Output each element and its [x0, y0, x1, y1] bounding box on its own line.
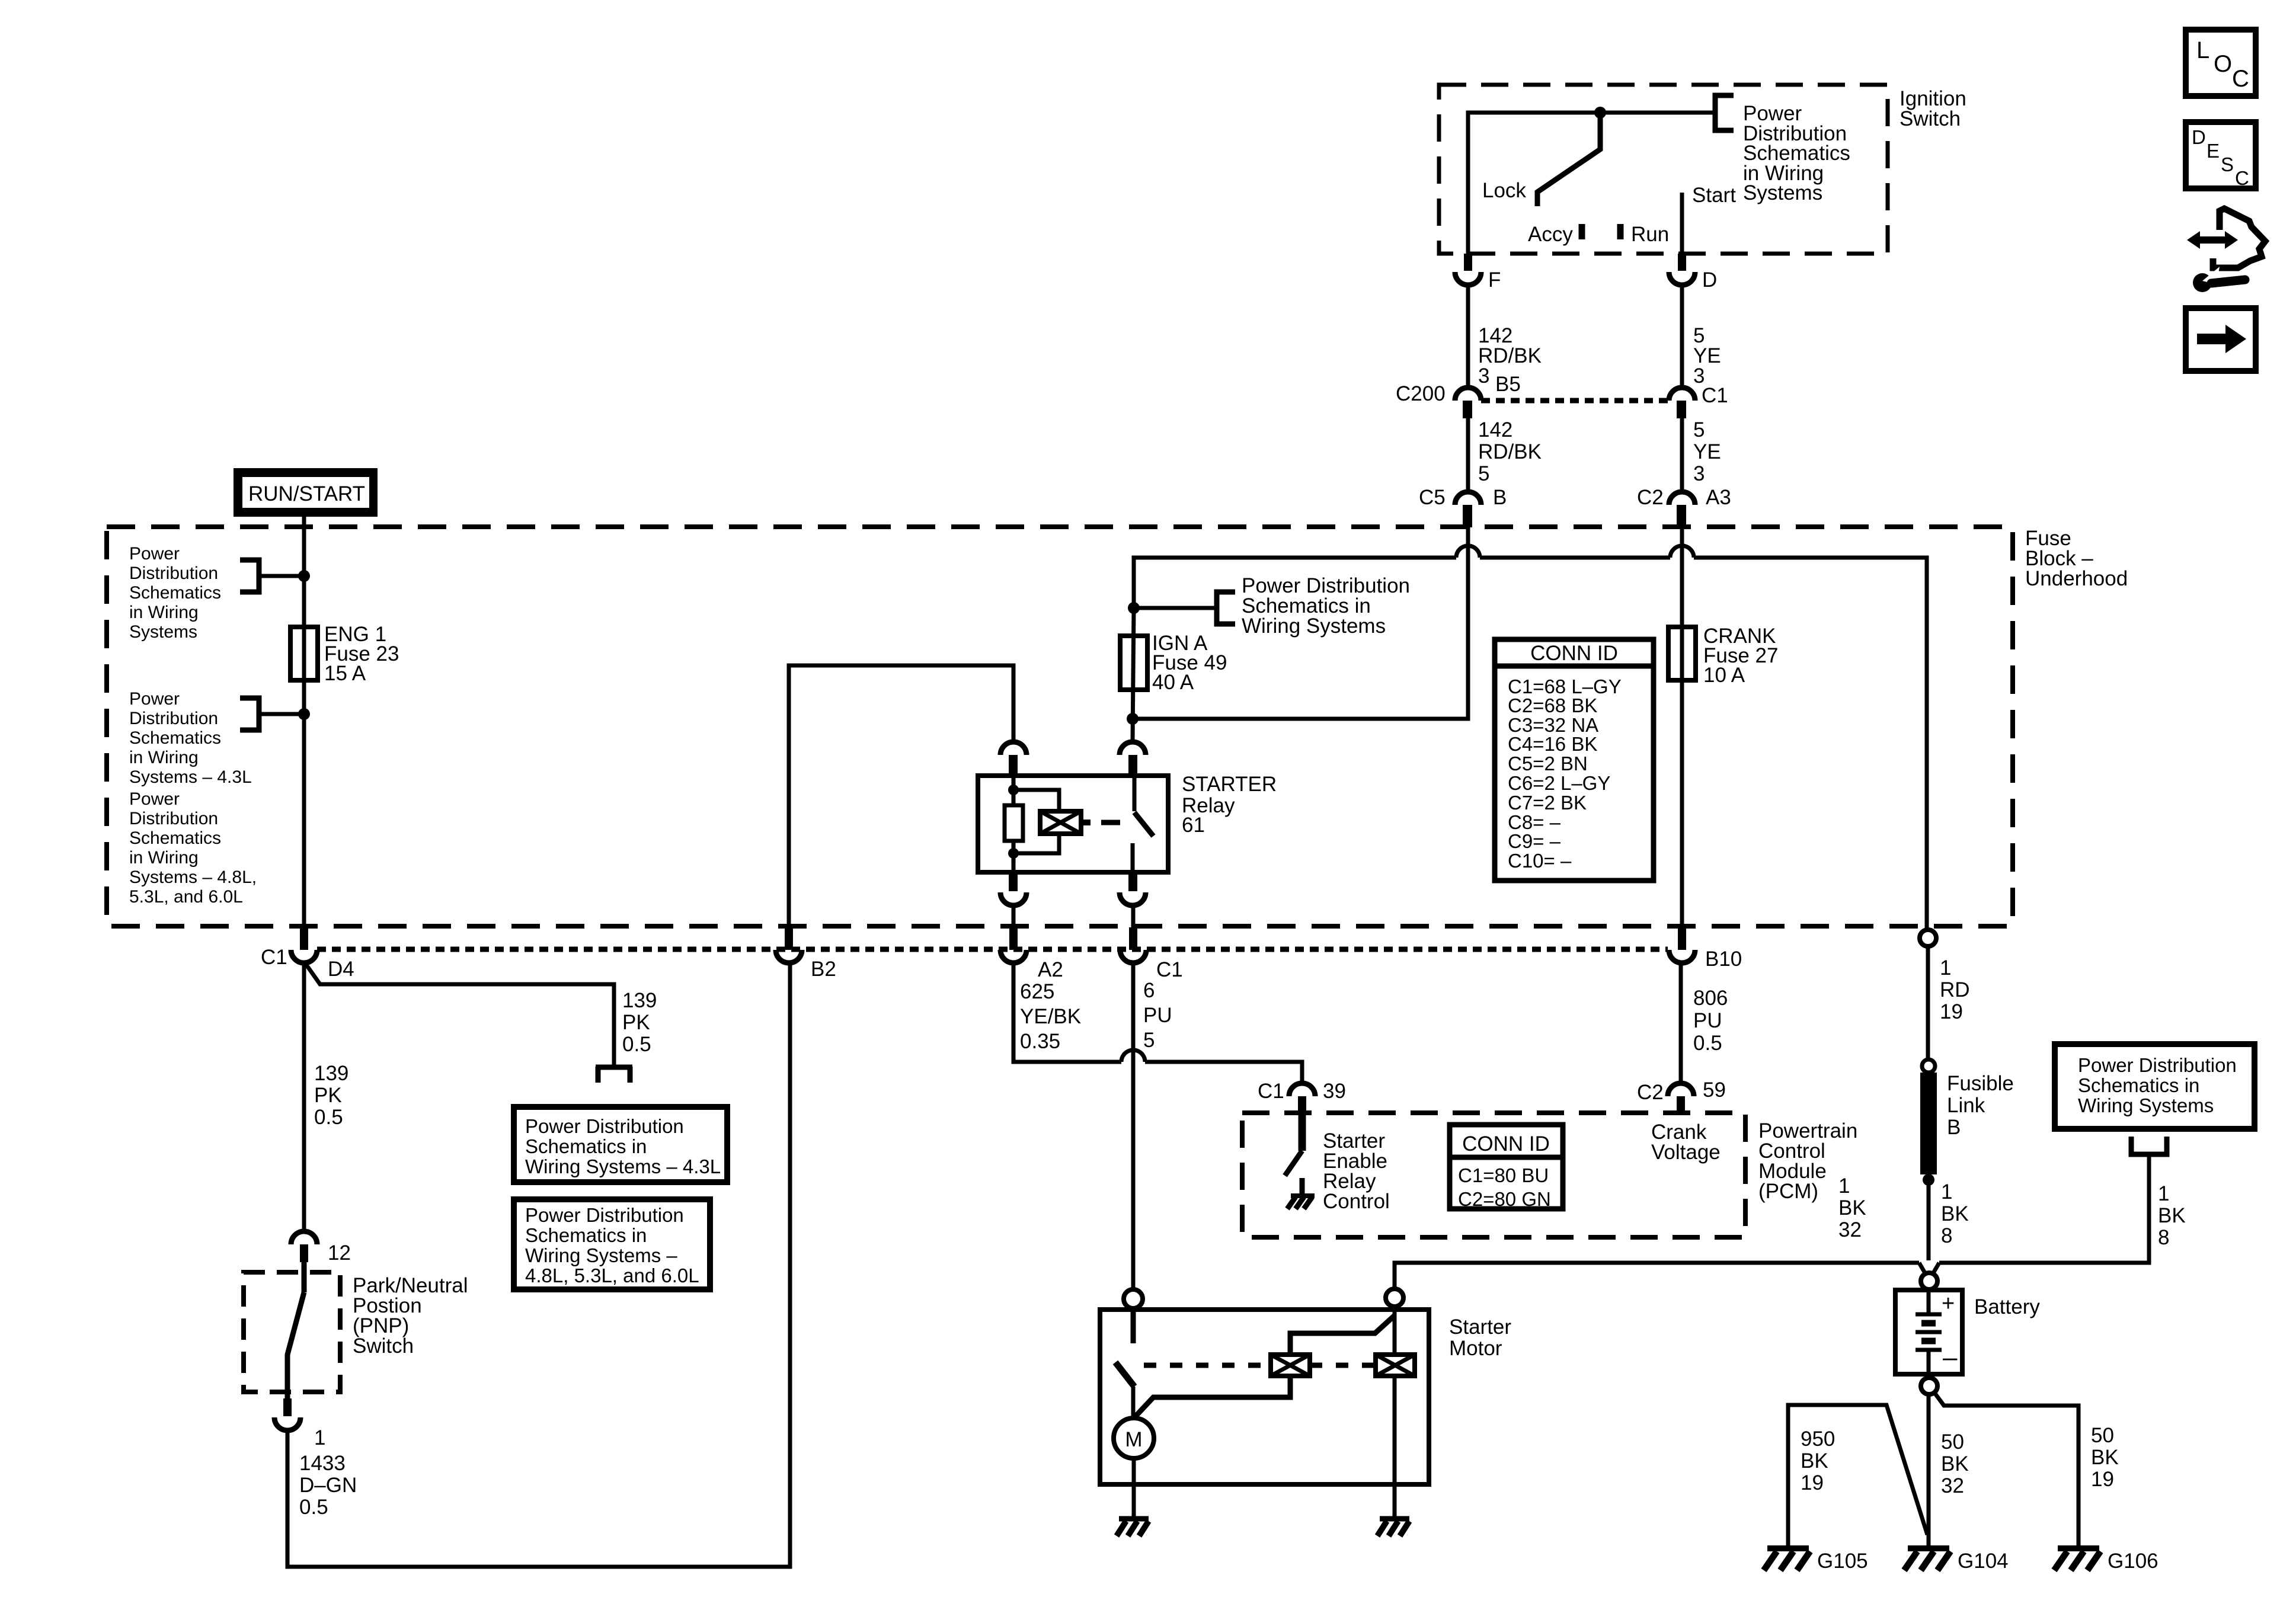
node ENG1 lower junction	[298, 708, 310, 720]
label 139 PK 0.5 (PNP)	[314, 1062, 348, 1129]
svg-text:C2: C2	[1637, 1081, 1664, 1104]
starter enable relay control switch	[1299, 1113, 1306, 1151]
label CRANK Fuse 27 10 A	[1703, 625, 1778, 687]
svg-text:BK: BK	[2158, 1204, 2186, 1227]
svg-text:C9= –: C9= –	[1508, 830, 1561, 852]
svg-text:STARTER: STARTER	[1182, 773, 1277, 796]
wire B2 riser to relay coil	[789, 665, 1013, 927]
svg-text:15 A: 15 A	[324, 662, 366, 685]
ground (starter motor left)	[1117, 1519, 1149, 1536]
tag RUN/START	[234, 468, 378, 517]
svg-text:D: D	[2192, 126, 2206, 148]
connector B2	[776, 927, 802, 963]
label 50 BK 19	[2091, 1424, 2119, 1491]
svg-text:in Wiring: in Wiring	[129, 603, 199, 622]
wire relay coil branch	[1012, 776, 1016, 872]
fusible link B	[1920, 1060, 1937, 1186]
svg-text:Systems: Systems	[1743, 181, 1822, 204]
starter switch blade	[1115, 1362, 1134, 1387]
svg-text:Schematics in: Schematics in	[525, 1224, 647, 1246]
svg-text:8: 8	[2158, 1226, 2169, 1249]
svg-text:Starter: Starter	[1449, 1315, 1511, 1339]
label power distribution schematics (ignition)	[1743, 102, 1850, 204]
svg-text:in Wiring: in Wiring	[129, 748, 199, 767]
label 142 RD/BK 5	[1478, 418, 1542, 485]
svg-text:Distribution: Distribution	[129, 564, 218, 583]
svg-text:1: 1	[314, 1426, 325, 1449]
off-page bracket (lower left)	[240, 698, 259, 730]
svg-text:Wiring Systems: Wiring Systems	[1242, 614, 1386, 638]
svg-text:50: 50	[1941, 1430, 1964, 1454]
label 1 BK 32	[1838, 1174, 1866, 1241]
label 5 YE 3 (lower)	[1693, 418, 1721, 485]
svg-text:C1: C1	[261, 946, 287, 969]
terminal starter solenoid S	[1124, 1289, 1143, 1308]
table CONN ID (fuse block)	[1495, 639, 1654, 881]
svg-text:C: C	[2232, 66, 2249, 92]
terminal circle RD exit	[1920, 930, 1936, 946]
svg-text:O: O	[2214, 51, 2232, 77]
icon arrow box	[2186, 308, 2256, 371]
svg-text:C6=2 L–GY: C6=2 L–GY	[1508, 772, 1610, 794]
svg-text:Accy: Accy	[1528, 223, 1573, 246]
wire 1433 D-GN return to B2	[287, 965, 790, 1567]
svg-text:C5=2 BN: C5=2 BN	[1508, 753, 1588, 774]
svg-text:C1: C1	[1156, 958, 1183, 981]
wire bus taps to battery positive	[1919, 1263, 1939, 1274]
label Park/Neutral Postion (PNP) Switch	[353, 1274, 468, 1358]
wire IGN A feed bus	[1134, 558, 1456, 608]
motor M	[1114, 1418, 1154, 1458]
off-page bracket (upper left)	[240, 560, 259, 592]
svg-text:Battery: Battery	[1974, 1295, 2040, 1318]
svg-text:39: 39	[1323, 1080, 1346, 1103]
svg-text:Underhood: Underhood	[2025, 567, 2128, 590]
svg-text:1: 1	[1940, 956, 1951, 980]
svg-text:8: 8	[1941, 1224, 1952, 1247]
label 5 YE 3	[1693, 324, 1721, 388]
svg-text:C10= –: C10= –	[1508, 850, 1572, 872]
wire ignition feed (F leg and top run)	[1468, 113, 1713, 254]
svg-text:CONN ID: CONN ID	[1530, 642, 1618, 665]
svg-text:C1: C1	[1258, 1080, 1284, 1103]
wire bracket to ENG1 lower	[259, 712, 304, 716]
connector C1 pin 39	[1289, 1083, 1315, 1114]
wire D4 branch to reference	[306, 964, 614, 1067]
icon vehicle-wrench symbol	[2187, 209, 2265, 292]
svg-text:Power: Power	[129, 689, 180, 709]
svg-text:32: 32	[1941, 1474, 1964, 1497]
svg-text:RD: RD	[1940, 978, 1970, 1001]
wire relay contact output to C1	[1131, 905, 1136, 927]
label power distribution schematics (left 1)	[129, 544, 221, 642]
svg-text:1: 1	[1941, 1180, 1952, 1204]
resistor (relay coil suppression)	[1005, 805, 1023, 841]
label Starter Enable Relay Control	[1323, 1129, 1390, 1213]
connector C2 pin 59	[1668, 1083, 1694, 1114]
wire bus continues	[1480, 556, 1670, 560]
svg-text:5.3L, and 6.0L: 5.3L, and 6.0L	[129, 887, 243, 907]
svg-text:4.8L, 5.3L, and 6.0L: 4.8L, 5.3L, and 6.0L	[525, 1265, 699, 1286]
icon LOC box	[2186, 30, 2256, 96]
wire 1 BK 8 (right)	[1939, 1154, 2149, 1263]
label 1433 D-GN 0.5	[299, 1452, 357, 1519]
svg-text:61: 61	[1182, 814, 1205, 837]
svg-text:BK: BK	[2091, 1446, 2119, 1469]
wire ignition start (D leg)	[1680, 193, 1684, 254]
wire 142 RD/BK 5	[1466, 418, 1470, 492]
svg-text:D: D	[1702, 268, 1717, 292]
label 1 BK 8 (fusible link)	[1941, 1180, 1969, 1247]
svg-text:Switch: Switch	[353, 1334, 414, 1358]
svg-text:5: 5	[1693, 418, 1705, 441]
svg-text:5: 5	[1478, 462, 1489, 485]
icon DESC box	[2186, 122, 2256, 189]
wire 5 YE 3 (lower)	[1680, 418, 1684, 492]
svg-text:BK: BK	[1838, 1196, 1866, 1219]
label Ignition Switch	[1900, 87, 1966, 130]
svg-text:40 A: 40 A	[1152, 671, 1194, 694]
wire blade to motor	[1131, 1387, 1136, 1419]
wire B (C5) drop inside fuse block	[1133, 527, 1468, 719]
hop over wire 6 PU	[1121, 1050, 1145, 1062]
svg-text:C2=80 GN: C2=80 GN	[1458, 1188, 1551, 1210]
svg-text:0.5: 0.5	[299, 1496, 328, 1519]
svg-text:Control: Control	[1323, 1190, 1390, 1213]
svg-text:806: 806	[1693, 987, 1728, 1010]
contact tick Accy	[1579, 224, 1585, 239]
ground (starter enable)	[1287, 1196, 1315, 1209]
label 1 RD 19	[1940, 956, 1970, 1023]
svg-text:3: 3	[1693, 462, 1705, 485]
svg-text:19: 19	[1940, 1000, 1963, 1023]
relay switch contact and blade	[1133, 776, 1153, 872]
connector C2 pin A3	[1669, 492, 1695, 527]
wire 950 BK 19 from G105	[1788, 1405, 1927, 1546]
svg-text:Distribution: Distribution	[129, 809, 218, 828]
svg-text:B5: B5	[1495, 373, 1521, 396]
connector B10	[1669, 927, 1695, 963]
wire 625 YE/BK continues	[1145, 1062, 1302, 1083]
svg-text:0.5: 0.5	[314, 1106, 343, 1129]
svg-text:in Wiring: in Wiring	[129, 848, 199, 868]
svg-text:PK: PK	[622, 1011, 650, 1034]
wire ENG1 feed from RUN/START	[302, 517, 306, 927]
svg-text:RD/BK: RD/BK	[1478, 440, 1542, 463]
ground G105	[1764, 1548, 1810, 1570]
svg-text:12: 12	[328, 1241, 351, 1265]
wire 6 PU 5 to starter motor	[1131, 964, 1136, 1289]
label ENG 1 Fuse 23 15 A	[324, 623, 399, 685]
label Crank Voltage	[1651, 1121, 1721, 1164]
svg-text:A3: A3	[1706, 486, 1731, 509]
svg-text:B2: B2	[811, 958, 836, 981]
svg-text:C2=68 BK: C2=68 BK	[1508, 694, 1597, 716]
harness dotted line C200	[1481, 398, 1669, 404]
svg-text:B: B	[1493, 486, 1507, 509]
wire relay winding loop	[1013, 790, 1059, 853]
ground G104	[1904, 1548, 1950, 1570]
svg-text:G105: G105	[1817, 1550, 1868, 1573]
node ignition junction	[1594, 107, 1606, 119]
svg-text:M: M	[1125, 1428, 1142, 1451]
svg-text:BK: BK	[1941, 1452, 1969, 1475]
svg-text:Systems: Systems	[129, 622, 197, 642]
svg-text:Power Distribution: Power Distribution	[2078, 1054, 2237, 1076]
connector relay pin 30 (contact top)	[1120, 742, 1146, 774]
svg-text:32: 32	[1838, 1218, 1862, 1241]
connector F	[1455, 254, 1481, 285]
terminal starter battery B	[1386, 1289, 1403, 1307]
svg-text:F: F	[1488, 268, 1501, 292]
connector C1 (relay output)	[1120, 927, 1146, 963]
wire A3 drop to CRANK fuse	[1680, 527, 1684, 927]
svg-text:(PCM): (PCM)	[1758, 1180, 1818, 1203]
wire IGN A fuse output	[1133, 608, 1134, 741]
svg-text:Power Distribution: Power Distribution	[525, 1115, 684, 1137]
svg-text:C1: C1	[1702, 384, 1728, 407]
svg-text:5: 5	[1143, 1029, 1155, 1052]
svg-text:C: C	[2235, 167, 2249, 189]
svg-text:G106: G106	[2108, 1550, 2159, 1573]
svg-text:Wiring Systems –: Wiring Systems –	[525, 1244, 677, 1266]
svg-text:19: 19	[2091, 1468, 2114, 1491]
PNP switch dashed box	[244, 1272, 340, 1392]
pull-in winding (box X)	[1271, 1355, 1310, 1376]
connector relay pin 87 (contact bottom)	[1120, 872, 1146, 905]
connector C1 pin D4	[291, 927, 317, 963]
off-page bracket (battery reference)	[2131, 1137, 2167, 1154]
svg-text:YE/BK: YE/BK	[1020, 1005, 1081, 1028]
connector 1 (PNP output)	[274, 1398, 300, 1430]
svg-text:950: 950	[1801, 1427, 1835, 1451]
svg-text:A2: A2	[1038, 958, 1063, 981]
svg-text:59: 59	[1703, 1078, 1726, 1102]
wire 5 YE 3	[1680, 286, 1684, 388]
PCM dashed box	[1242, 1113, 1745, 1237]
wire ground bus (starter motor to battery)	[1395, 1263, 1919, 1266]
svg-text:Schematics: Schematics	[129, 583, 221, 603]
label power distribution schematics (left 2)	[129, 689, 252, 787]
wire 1 RD 19	[1926, 946, 1930, 1061]
svg-text:Power: Power	[129, 544, 180, 564]
table CONN ID (PCM)	[1450, 1125, 1563, 1210]
svg-text:D–GN: D–GN	[299, 1474, 357, 1497]
label STARTER Relay 61	[1182, 773, 1277, 837]
relay STARTER Relay 61 box	[978, 776, 1168, 872]
svg-text:C1=80 BU: C1=80 BU	[1458, 1164, 1549, 1186]
svg-text:0.5: 0.5	[622, 1033, 651, 1056]
wire 142 RD/BK 3	[1466, 286, 1470, 388]
svg-text:0.35: 0.35	[1020, 1030, 1060, 1053]
node ENG1 upper junction	[298, 570, 310, 582]
fuse ENG 1	[290, 627, 318, 680]
svg-text:Power Distribution: Power Distribution	[525, 1204, 684, 1226]
svg-text:3: 3	[1478, 364, 1489, 388]
label 625 YE/BK 0.35	[1020, 980, 1081, 1053]
svg-text:Wiring Systems – 4.3L: Wiring Systems – 4.3L	[525, 1156, 721, 1177]
label Fusible Link B	[1947, 1072, 2014, 1139]
wire branch to G106	[1934, 1392, 2078, 1546]
svg-text:1: 1	[1838, 1174, 1850, 1198]
svg-text:YE: YE	[1693, 440, 1721, 463]
svg-text:L: L	[2196, 37, 2209, 63]
off-page bracket (ignition to power distribution)	[1715, 95, 1734, 130]
svg-text:Power: Power	[129, 789, 180, 809]
harness dotted row (fuse block underside)	[317, 947, 1668, 952]
label Powertrain Control Module (PCM)	[1758, 1119, 1857, 1203]
ground (starter motor right)	[1377, 1519, 1409, 1536]
svg-text:+: +	[1942, 1291, 1955, 1316]
svg-text:Systems – 4.8L,: Systems – 4.8L,	[129, 868, 257, 887]
wire relay coil output to A2	[1012, 905, 1016, 927]
svg-text:PU: PU	[1143, 1004, 1172, 1027]
wire 806 PU 0.5	[1679, 964, 1683, 1083]
label 950 BK 19	[1801, 1427, 1835, 1494]
svg-text:6: 6	[1143, 979, 1155, 1002]
wire starter B terminal to bus	[1393, 1266, 1397, 1289]
label 139 PK 0.5 (branch)	[622, 989, 657, 1056]
svg-text:BK: BK	[1801, 1449, 1828, 1473]
label power distribution schematics (IGN A)	[1242, 574, 1410, 638]
svg-text:139: 139	[314, 1062, 348, 1085]
svg-text:Link: Link	[1947, 1094, 1985, 1117]
svg-text:E: E	[2207, 140, 2220, 162]
svg-text:625: 625	[1020, 980, 1054, 1003]
svg-text:C7=2 BK: C7=2 BK	[1508, 792, 1587, 814]
svg-text:G104: G104	[1958, 1550, 2009, 1573]
connector C5 pin B	[1455, 492, 1481, 527]
wire motor feed path	[1136, 1315, 1395, 1416]
svg-text:RUN/START: RUN/START	[248, 482, 365, 505]
svg-text:139: 139	[622, 989, 657, 1012]
hop over wire B	[1456, 546, 1480, 558]
wire bracket to ENG1	[259, 574, 304, 578]
svg-text:C200: C200	[1396, 382, 1446, 405]
starter switch contact	[1131, 1308, 1136, 1343]
off-page bracket (IGN A)	[1217, 592, 1235, 624]
hop over wire A3	[1670, 546, 1694, 558]
svg-text:10 A: 10 A	[1703, 664, 1745, 687]
svg-text:Schematics in: Schematics in	[525, 1135, 647, 1157]
connector relay pin 85 (coil bottom)	[1000, 872, 1027, 905]
wire 625 YE/BK to PCM pin 39	[1013, 964, 1121, 1062]
fuse CRANK	[1668, 627, 1696, 680]
svg-text:Schematics: Schematics	[129, 728, 221, 748]
svg-text:B10: B10	[1705, 948, 1742, 971]
svg-text:1433: 1433	[299, 1452, 346, 1475]
label 142 RD/BK 3	[1478, 324, 1542, 388]
switch wiper (ignition)	[1537, 113, 1600, 206]
node relay coil top	[1008, 785, 1019, 795]
svg-text:Lock: Lock	[1482, 179, 1526, 202]
relay solenoid winding (box X)	[1040, 811, 1091, 834]
node relay contact junction	[1127, 713, 1139, 725]
wire motor to ground	[1132, 1458, 1136, 1519]
svg-text:Distribution: Distribution	[129, 709, 218, 728]
svg-text:B: B	[1947, 1116, 1961, 1139]
fuse block underhood dashed box	[107, 527, 2013, 926]
starter motor box	[1100, 1310, 1429, 1484]
svg-text:Run: Run	[1631, 223, 1669, 246]
wire 139 PK 0.5 to PNP switch	[302, 964, 306, 1231]
connector relay pin 86 (coil top)	[1000, 742, 1027, 774]
connector C200 pin B5	[1455, 388, 1481, 418]
wire bus to RD drop	[1694, 558, 1927, 929]
label 806 PU 0.5	[1693, 987, 1728, 1055]
label 1 BK 8 (right)	[2158, 1182, 2186, 1249]
PNP switch blade	[287, 1262, 304, 1398]
svg-text:C2: C2	[1637, 486, 1664, 509]
starter actuator dashed link	[1144, 1363, 1376, 1368]
label power distribution schematics (left 3)	[129, 789, 257, 907]
svg-text:Fusible: Fusible	[1947, 1072, 2014, 1095]
ignition switch dashed box	[1439, 85, 1888, 254]
svg-text:19: 19	[1801, 1471, 1824, 1494]
svg-text:50: 50	[2091, 1424, 2114, 1447]
connector D	[1669, 254, 1695, 285]
hold-in winding (box X)	[1376, 1355, 1415, 1376]
svg-text:0.5: 0.5	[1693, 1032, 1722, 1055]
svg-text:Systems – 4.3L: Systems – 4.3L	[129, 767, 252, 787]
svg-text:Switch: Switch	[1900, 107, 1961, 130]
svg-text:D4: D4	[328, 958, 354, 981]
svg-text:Motor: Motor	[1449, 1337, 1502, 1360]
svg-text:Start: Start	[1692, 184, 1736, 207]
svg-text:PU: PU	[1693, 1009, 1722, 1032]
connector 12	[291, 1231, 317, 1262]
wire to IGN A bracket	[1134, 606, 1217, 610]
reference box power distribution 4.8L 5.3L 6.0L	[514, 1199, 710, 1289]
label Fuse Block - Underhood	[2025, 527, 2128, 590]
node relay coil bottom	[1008, 848, 1019, 859]
ground G106	[2054, 1548, 2100, 1570]
wire 1 BK 8 (battery feed)	[1927, 1180, 1931, 1260]
label Starter Motor	[1449, 1315, 1511, 1360]
connector A2	[1000, 927, 1027, 963]
wire 50 BK 32 to G104	[1927, 1394, 1931, 1546]
fuse IGN A	[1120, 636, 1147, 690]
svg-text:142: 142	[1478, 418, 1512, 441]
label 6 PU 5	[1143, 979, 1172, 1052]
wire solenoid windings drop	[1393, 1307, 1397, 1519]
contact tick Run	[1617, 224, 1624, 239]
svg-text:C5: C5	[1419, 486, 1446, 509]
battery	[1895, 1290, 1962, 1374]
svg-text:C4=16 BK: C4=16 BK	[1508, 733, 1597, 755]
relay actuator dash	[1101, 820, 1120, 825]
svg-text:–: –	[1943, 1343, 1958, 1372]
terminal battery positive	[1921, 1273, 1937, 1289]
svg-text:Voltage: Voltage	[1651, 1141, 1721, 1164]
svg-text:CONN ID: CONN ID	[1462, 1132, 1550, 1156]
terminal battery negative	[1921, 1378, 1937, 1394]
svg-text:S: S	[2221, 153, 2234, 175]
svg-text:Schematics: Schematics	[129, 828, 221, 848]
reference box power distribution 4.3L	[514, 1107, 727, 1182]
label 50 BK 32	[1941, 1430, 1969, 1497]
node IGN A upper junction	[1128, 602, 1140, 614]
svg-text:1: 1	[2158, 1182, 2169, 1205]
svg-text:Wiring Systems: Wiring Systems	[2078, 1094, 2214, 1116]
svg-text:PK: PK	[314, 1084, 342, 1107]
svg-text:Schematics in: Schematics in	[2078, 1074, 2199, 1096]
connector C200 pin C1	[1669, 388, 1695, 418]
svg-text:BK: BK	[1941, 1202, 1969, 1225]
label IGN A Fuse 49 40 A	[1152, 632, 1227, 694]
off-page bracket (to 4.3L box)	[596, 1067, 632, 1083]
reference box power distribution (battery)	[2055, 1044, 2255, 1129]
